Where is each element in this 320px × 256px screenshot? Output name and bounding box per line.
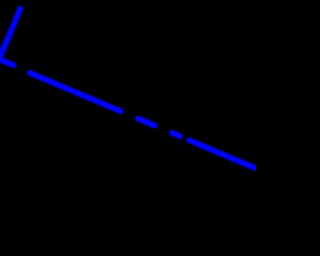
- solid core layer: [0, 9, 257, 169]
- soft outer glow layer: [0, 9, 257, 169]
- mid glow layer: [0, 9, 257, 169]
